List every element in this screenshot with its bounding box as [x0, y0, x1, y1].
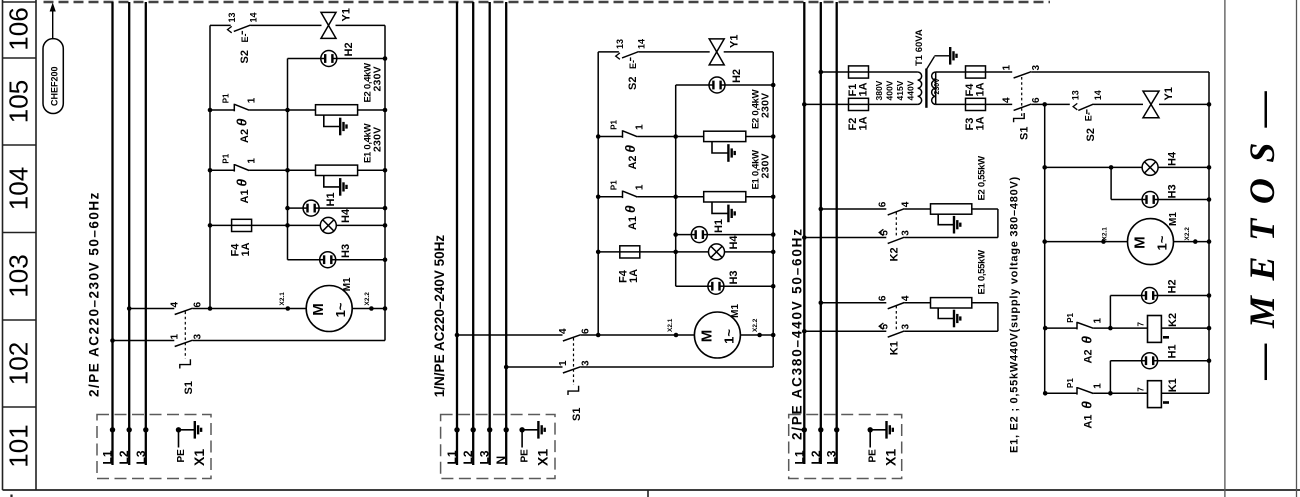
C2 X1 terminal L1 — [454, 427, 459, 432]
C1 X1 terminal L2 — [127, 427, 132, 432]
svg-text:5: 5 — [880, 324, 891, 330]
svg-text:1A: 1A — [975, 82, 987, 96]
svg-text:3: 3 — [581, 360, 592, 366]
svg-text:1: 1 — [1002, 65, 1013, 71]
svg-text:3: 3 — [901, 230, 912, 236]
C2 indicator lamp H4 — [709, 244, 725, 260]
C2 wire F4 to node — [640, 251, 676, 253]
svg-text:H2: H2 — [1167, 279, 1179, 293]
svg-text:—METOS—: —METOS— — [1242, 76, 1282, 381]
C2 wire rail to A1 contact — [598, 196, 622, 198]
C3 terminal block X1 dashed outline — [789, 415, 902, 479]
C3 junction H1 row right rail — [1207, 358, 1212, 363]
svg-text:E-: E- — [628, 60, 638, 69]
C2 top wire rail to S2 contact 13 — [598, 51, 619, 53]
C1 S1 pole blade 1-3 — [175, 340, 193, 346]
C1 right rail — [384, 25, 386, 340]
C3 K2 blade 5-3 — [888, 237, 905, 243]
C2 wire node to lamp H3 — [676, 285, 708, 287]
C1 wire S1 terminal 6 to rail — [193, 308, 210, 310]
C3 junction rail motor row — [1042, 239, 1047, 244]
svg-text:θ: θ — [1079, 401, 1095, 409]
C3 wire rail to A2 contact — [1045, 327, 1077, 329]
svg-text:θ: θ — [622, 205, 638, 213]
C1 wire node to lamp H3 — [288, 259, 320, 261]
C3 S2 actuator tick — [1086, 109, 1088, 114]
dashed boundary line (continuation to sheet 106) — [44, 1, 1051, 3]
C3 node vertical H1-A1 — [1109, 361, 1111, 394]
C1 wire Y1 to right rail — [336, 24, 386, 26]
svg-text:1: 1 — [170, 334, 181, 340]
svg-text:106: 106 — [4, 7, 34, 50]
svg-text:230V: 230V — [934, 78, 941, 95]
C1 signal lamp H1 — [303, 200, 319, 216]
svg-text:M1: M1 — [1168, 212, 1179, 226]
C3 K2 blade 6-4 — [888, 209, 905, 215]
C3 junction L2 K2 row — [819, 207, 824, 212]
svg-text:K2: K2 — [1167, 313, 1179, 327]
svg-text:6: 6 — [581, 328, 592, 334]
C2 wire L1 to S1 terminal 4 — [457, 334, 563, 336]
C3 junction rail A1 row — [1043, 391, 1048, 396]
svg-text:4: 4 — [901, 295, 912, 301]
C1 heating element E1 — [316, 165, 358, 175]
C1 motor M1 — [306, 286, 352, 332]
C3 signal lamp H3 — [1142, 192, 1158, 208]
svg-text:H1: H1 — [1167, 344, 1179, 358]
C1 wire L1 to S1 terminal 1 — [113, 340, 175, 342]
svg-text:θ: θ — [234, 179, 250, 187]
svg-text:103: 103 — [4, 254, 34, 297]
svg-text:H4: H4 — [340, 208, 352, 223]
C2 A1 thermostat contact — [623, 191, 638, 199]
C3 wire S1 pin 3 to top right corner — [1031, 71, 1209, 73]
C2 wire H2 to right rail — [725, 84, 773, 86]
C2 wire H3 to right rail — [724, 285, 773, 287]
svg-text:5: 5 — [880, 230, 891, 236]
C1 PE lead — [178, 430, 180, 448]
C3 return vertical — [997, 303, 999, 331]
C1 X1 terminal L1 — [110, 427, 115, 432]
C1 wire motor to right rail — [352, 308, 385, 310]
C3 wire L1 to fuse F2 — [804, 103, 848, 105]
svg-text:230V: 230V — [760, 153, 772, 178]
C2 S2 blade 13-14 — [622, 52, 639, 58]
svg-text:E-: E- — [1084, 112, 1094, 121]
C1 wire L2 to S1 terminal 4 — [129, 308, 174, 310]
svg-text:K2: K2 — [889, 247, 901, 261]
C3 T1 secondary chord line — [935, 72, 937, 104]
C2 wire A2 contact to node — [637, 136, 675, 138]
C3 wire rail to H4 — [1045, 166, 1142, 168]
C3 signal lamp H2 — [1142, 288, 1158, 304]
C1 junction on L2 feeding S1 pole 4-6 — [127, 306, 132, 311]
C1 E2 sheath earth connection — [324, 115, 340, 126]
C3 S2 blade 13-14 — [1078, 104, 1093, 110]
svg-text:Y1: Y1 — [341, 8, 353, 21]
C3 T1 screen earth diagonal — [926, 57, 934, 70]
C2 wire rail to A2 contact — [598, 136, 622, 138]
svg-text:K1: K1 — [889, 341, 901, 355]
C1 signal lamp H2 — [321, 51, 337, 67]
svg-text:CHEF200: CHEF200 — [50, 66, 60, 106]
C2 wire node to heater E1 — [676, 196, 704, 198]
svg-text:M1: M1 — [342, 277, 353, 291]
C2 fuse F4 — [620, 246, 640, 258]
C3 junction node K2 row — [1108, 326, 1113, 331]
C1 junction on L1 feeding S1 pole 1-3 — [110, 338, 115, 343]
svg-text:L2: L2 — [461, 450, 475, 464]
number strip divider 4 — [3, 406, 37, 408]
C3 wire node to H2 — [1110, 295, 1141, 297]
C1 E1 sheath earth connection — [324, 176, 340, 187]
svg-text:X1: X1 — [535, 449, 551, 466]
svg-text:1A: 1A — [858, 116, 870, 130]
svg-text:1~: 1~ — [721, 329, 736, 344]
C3 supply line L2 — [820, 2, 822, 464]
C2 wire E1 to right rail — [746, 196, 773, 198]
svg-text:N: N — [494, 456, 508, 465]
C3 wire rail to A1 contact — [1045, 392, 1077, 394]
C1 PE earth stem — [179, 429, 195, 431]
C2 S2 actuator tick — [630, 57, 632, 61]
C2 E2 earth symbol — [728, 144, 734, 162]
C1 junction S1-6 / left rail / motor feed — [208, 306, 213, 311]
C3 solenoid valve Y1 — [1143, 91, 1159, 118]
C3 contactor coil K1 — [1148, 381, 1162, 408]
C2 PE earth symbol — [538, 421, 544, 439]
frame left border — [2, 0, 4, 490]
C2 supply line L2 — [472, 2, 474, 465]
C1 junction H2 row right rail — [383, 56, 388, 61]
C1 junction node H1 row — [285, 206, 290, 211]
C3 wire T1 primary top lead — [869, 71, 918, 73]
C2 wire node to lamp H4 — [676, 251, 709, 253]
C2 wire node to lamp H2 — [676, 84, 709, 86]
svg-text:P1: P1 — [221, 93, 230, 103]
C3 transformer T1 secondary winding — [932, 72, 936, 104]
C1 S2 fixed contact chevron — [228, 26, 232, 32]
C1 junction H3 row right rail — [383, 257, 388, 262]
C1 left rail — [209, 25, 211, 308]
svg-text:1~: 1~ — [1155, 235, 1170, 250]
C3 junction H4/H3 node — [1109, 165, 1114, 170]
svg-text:230V: 230V — [760, 93, 772, 118]
C2 motor M1 — [694, 312, 740, 358]
C2 junction E1 row right rail — [771, 195, 776, 200]
C2 S2 fixed contact chevron — [616, 53, 620, 59]
C1 PE earth symbol — [195, 421, 201, 439]
C3 wire S1 pin 6 to junction — [1031, 103, 1045, 105]
C1 terminal block X1 dashed outline — [97, 415, 211, 479]
svg-text:1: 1 — [1093, 318, 1104, 324]
C2 A2 thermostat contact — [623, 130, 638, 138]
C3 junction rail H4 row — [1042, 165, 1047, 170]
C2 junction H1 row right rail — [771, 232, 776, 237]
C1 S1 manual actuator — [180, 359, 191, 368]
C1 wire H4 to right rail — [336, 224, 385, 226]
C3 wire Y1 to right rail — [1159, 103, 1209, 105]
C2 junction node H4 row — [673, 250, 678, 255]
C3 S1 linkage dashed — [1021, 77, 1023, 118]
svg-text:K1: K1 — [1167, 378, 1179, 392]
C1 solenoid valve Y1 — [321, 12, 336, 38]
C3 return wire to K2 contact 3 — [904, 237, 998, 239]
svg-text:1: 1 — [635, 124, 646, 130]
C2 E2 sheath earth connection — [712, 142, 728, 153]
svg-text:3: 3 — [1031, 65, 1042, 71]
C1 wire F4 to node — [252, 224, 288, 226]
C1 supply line L3 — [145, 2, 147, 465]
svg-text:P1: P1 — [610, 119, 619, 129]
svg-text:L1: L1 — [101, 450, 115, 464]
C1 junction node H4 row — [285, 223, 290, 228]
C3 junction K2 row right rail — [1207, 326, 1212, 331]
svg-text:H2: H2 — [731, 69, 743, 83]
arrowhead to boundary — [50, 3, 56, 12]
C1 junction E2 row right rail — [383, 108, 388, 113]
C3 junction L2 K1 row — [819, 301, 824, 306]
C1 junction E1 row right rail — [383, 168, 388, 173]
C3 supply line L3 — [836, 2, 838, 464]
C3 fuse F2 — [849, 98, 869, 110]
C2 wire rail to fuse F4 — [598, 251, 620, 253]
svg-text:PE: PE — [520, 449, 531, 463]
C3 wire L1 to K2 contact 5 — [804, 237, 886, 239]
C3 wire junction to S2 — [1045, 103, 1070, 105]
C1 wire node to heater E1 — [288, 169, 316, 171]
C3 junction L1 K2 row — [802, 235, 807, 240]
svg-text:L1: L1 — [445, 450, 459, 464]
C2 wire A1 contact to node — [637, 196, 675, 198]
title block left border — [1224, 0, 1226, 497]
C1 X1 terminal L3 — [143, 427, 148, 432]
svg-text:1: 1 — [1093, 383, 1104, 389]
C2 right rail — [772, 52, 774, 367]
svg-text:P1: P1 — [1066, 378, 1075, 388]
C1 wire rail to motor terminal X2.1 — [210, 308, 306, 310]
svg-text:X1: X1 — [191, 449, 207, 466]
C3 wire T1 secondary to fuse F3 — [936, 103, 966, 105]
svg-text:3: 3 — [901, 324, 912, 330]
svg-text:Y1: Y1 — [729, 35, 741, 48]
C1 wire H3 to right rail — [336, 259, 385, 261]
svg-text:M: M — [1132, 236, 1149, 249]
C2 left rail — [597, 52, 599, 335]
C3 K1 linkage dashed — [895, 306, 897, 330]
C3 return vertical — [997, 209, 999, 238]
svg-text:H1: H1 — [325, 192, 337, 206]
svg-text:S2: S2 — [627, 77, 639, 90]
svg-text:1: 1 — [635, 184, 646, 190]
C1 wire A2 contact to node — [249, 109, 287, 111]
svg-text:1/N/PE AC220–240V 50Hz: 1/N/PE AC220–240V 50Hz — [432, 235, 447, 398]
svg-text:14: 14 — [1093, 90, 1103, 100]
frame bottom border — [3, 489, 1300, 491]
C1 wire A1 contact to node — [249, 169, 287, 171]
C3 fuse F3 — [966, 98, 986, 110]
C2 wire motor to right rail — [740, 334, 773, 336]
svg-text:7: 7 — [1137, 387, 1146, 392]
svg-text:A2: A2 — [239, 129, 251, 143]
svg-text:400V: 400V — [885, 80, 895, 100]
C1 junction left rail A1 row — [208, 168, 213, 173]
svg-text:H2: H2 — [343, 42, 355, 56]
C3 K2 linkage dashed — [895, 212, 897, 237]
svg-text:H3: H3 — [728, 270, 740, 284]
C3 terminal X2.1 — [1101, 239, 1106, 244]
C3 wire F2 to T1 primary — [869, 103, 918, 105]
svg-text:2/PE AC220–230V 50–60Hz: 2/PE AC220–230V 50–60Hz — [87, 191, 102, 397]
svg-text:1: 1 — [247, 97, 258, 103]
C2 junction node E2 row — [673, 134, 678, 139]
C2 S1 pole blade 4-6 — [563, 335, 581, 341]
C3 wire S2 to Y1 — [1094, 103, 1144, 105]
C3 wire K2 to right rail — [1161, 327, 1209, 329]
C3 junction rail A2 row — [1043, 326, 1048, 331]
svg-text:6: 6 — [878, 201, 889, 207]
svg-text:1A: 1A — [975, 116, 987, 130]
fold mark bottom center — [647, 490, 649, 497]
C1 supply line L1 — [111, 2, 113, 465]
C3 junction L1 fuse F2 row — [802, 102, 807, 107]
svg-text:4: 4 — [558, 328, 569, 334]
C3 A2 thermostat contact — [1077, 322, 1093, 330]
svg-text:L3: L3 — [478, 450, 492, 464]
C1 E2 earth symbol — [340, 118, 346, 136]
C3 X1 terminal PE — [868, 427, 873, 432]
C3 wire F4 to S1 pin 1 — [986, 71, 1013, 73]
svg-text:A2: A2 — [627, 155, 639, 169]
C3 wire node to coil K2 — [1110, 327, 1147, 329]
C2 wire E2 to right rail — [746, 136, 773, 138]
C3 A1 thermostat contact — [1077, 387, 1093, 395]
C3 wire L2 to K1 contact 6 — [821, 302, 887, 304]
svg-text:X2.2: X2.2 — [752, 318, 759, 332]
C2 supply line N — [505, 2, 507, 465]
svg-text:P1: P1 — [610, 180, 619, 190]
C3 S1 pole blade 1-3 — [1014, 72, 1032, 78]
CHEF200 reference bubble — [43, 39, 63, 114]
C3 wire motor to right rail — [1174, 241, 1210, 243]
C2 wire N to S1 terminal 1 — [506, 366, 562, 368]
C1 wire H1 to right rail — [319, 207, 385, 209]
C1 junction motor row right rail — [383, 306, 388, 311]
C2 node vertical H2-H3 — [675, 85, 677, 286]
C3 PE earth stem — [870, 429, 886, 431]
C1 heating element E2 — [316, 105, 358, 115]
C3 junction H4 row right rail — [1207, 165, 1212, 170]
C2 junction left rail F4 row — [596, 250, 601, 255]
svg-text:230V: 230V — [372, 66, 384, 91]
svg-text:6: 6 — [192, 302, 203, 308]
svg-text:X2.1: X2.1 — [1102, 227, 1109, 241]
svg-text:H4: H4 — [1167, 151, 1179, 166]
svg-text:13: 13 — [227, 12, 237, 22]
svg-text:1A: 1A — [858, 82, 870, 96]
C3 right rail — [1208, 72, 1210, 393]
C3 wire F3 to S1 pin 4 — [986, 103, 1013, 105]
C3 wire T1 secondary to fuse F4 — [936, 71, 966, 73]
svg-text:X2.1: X2.1 — [667, 318, 674, 332]
C1 junction left rail F4 row — [208, 223, 213, 228]
svg-text:102: 102 — [4, 342, 34, 385]
frame top edge over number strip — [3, 1, 37, 3]
C3 X1 terminal L1 — [802, 427, 807, 432]
number strip divider 3 — [3, 319, 37, 321]
C1 terminal X2.1 — [286, 306, 291, 311]
svg-text:105: 105 — [4, 80, 34, 123]
svg-text:E-: E- — [240, 33, 250, 42]
C2 wire rail to motor terminal X2.1 — [598, 334, 694, 336]
C2 terminal block X1 dashed outline — [441, 415, 555, 479]
svg-text:1: 1 — [247, 158, 258, 164]
C3 transformer T1 primary winding — [918, 72, 922, 104]
C3 K1 blade 5-3 — [888, 331, 905, 337]
C1 top wire rail to S2 contact 13 — [210, 24, 231, 26]
C3 signal lamp H1 — [1142, 353, 1158, 369]
C3 wire L2 to K2 contact 6 — [821, 208, 887, 210]
C3 wire K2 contact 4 to heater E2 — [904, 208, 930, 210]
C3 indicator lamp H4 — [1142, 159, 1158, 175]
C3 wire H1 to right rail — [1158, 360, 1209, 362]
C2 junction H4 row right rail — [771, 250, 776, 255]
C3 wire rail to motor — [1045, 241, 1128, 243]
C3 terminal X2.2 — [1193, 239, 1198, 244]
svg-text:H3: H3 — [340, 244, 352, 258]
C2 E1 earth symbol — [728, 205, 734, 223]
svg-text:PE: PE — [176, 449, 187, 463]
C2 junction motor row right rail — [771, 333, 776, 338]
C2 junction node E1 row — [673, 195, 678, 200]
svg-text:S2: S2 — [1085, 128, 1097, 141]
C3 junction node K1 row — [1108, 391, 1113, 396]
C3 wire K1 to right rail — [1161, 392, 1209, 394]
svg-text:M1: M1 — [730, 303, 741, 317]
C3 E1 earth symbol — [954, 310, 960, 328]
C3 S2 fixed contact chevron — [1073, 103, 1077, 109]
C3 K1 blade 6-4 — [888, 303, 905, 309]
svg-text:X1: X1 — [883, 449, 899, 466]
svg-text:A1: A1 — [627, 216, 639, 230]
C1 junction node E1 row — [285, 168, 290, 173]
svg-text:L3: L3 — [825, 450, 839, 464]
number strip divider 2 — [3, 232, 37, 234]
C2 junction H2 row right rail — [771, 83, 776, 88]
svg-text:S2: S2 — [239, 50, 251, 63]
svg-text:230V: 230V — [372, 127, 384, 152]
C1 fuse F4 — [232, 219, 252, 231]
C2 junction on L1 feeding S1 pole 4-6 — [455, 333, 460, 338]
C3 wire node to coil K1 — [1110, 392, 1147, 394]
svg-text:T1 60VA: T1 60VA — [914, 29, 925, 66]
svg-text:4: 4 — [1002, 97, 1013, 103]
C3 T1 screen earth stem — [934, 55, 949, 57]
C1 wire S1 terminal 3 to right rail — [193, 340, 385, 342]
C2 junction E2 row right rail — [771, 134, 776, 139]
svg-text:θ: θ — [234, 118, 250, 126]
C1 junction left rail A2 row — [208, 108, 213, 113]
C1 junction H4 row right rail — [383, 223, 388, 228]
C1 A2 thermostat contact — [234, 104, 249, 112]
svg-text:H3: H3 — [1167, 184, 1179, 198]
svg-text:1A: 1A — [628, 269, 640, 283]
C3 E1 sheath earth connection — [938, 308, 953, 319]
svg-text:415V: 415V — [895, 80, 905, 100]
C3 K1 pin 5 chevron — [879, 323, 883, 329]
svg-text:A1: A1 — [239, 189, 251, 203]
svg-text:L3: L3 — [134, 450, 148, 464]
